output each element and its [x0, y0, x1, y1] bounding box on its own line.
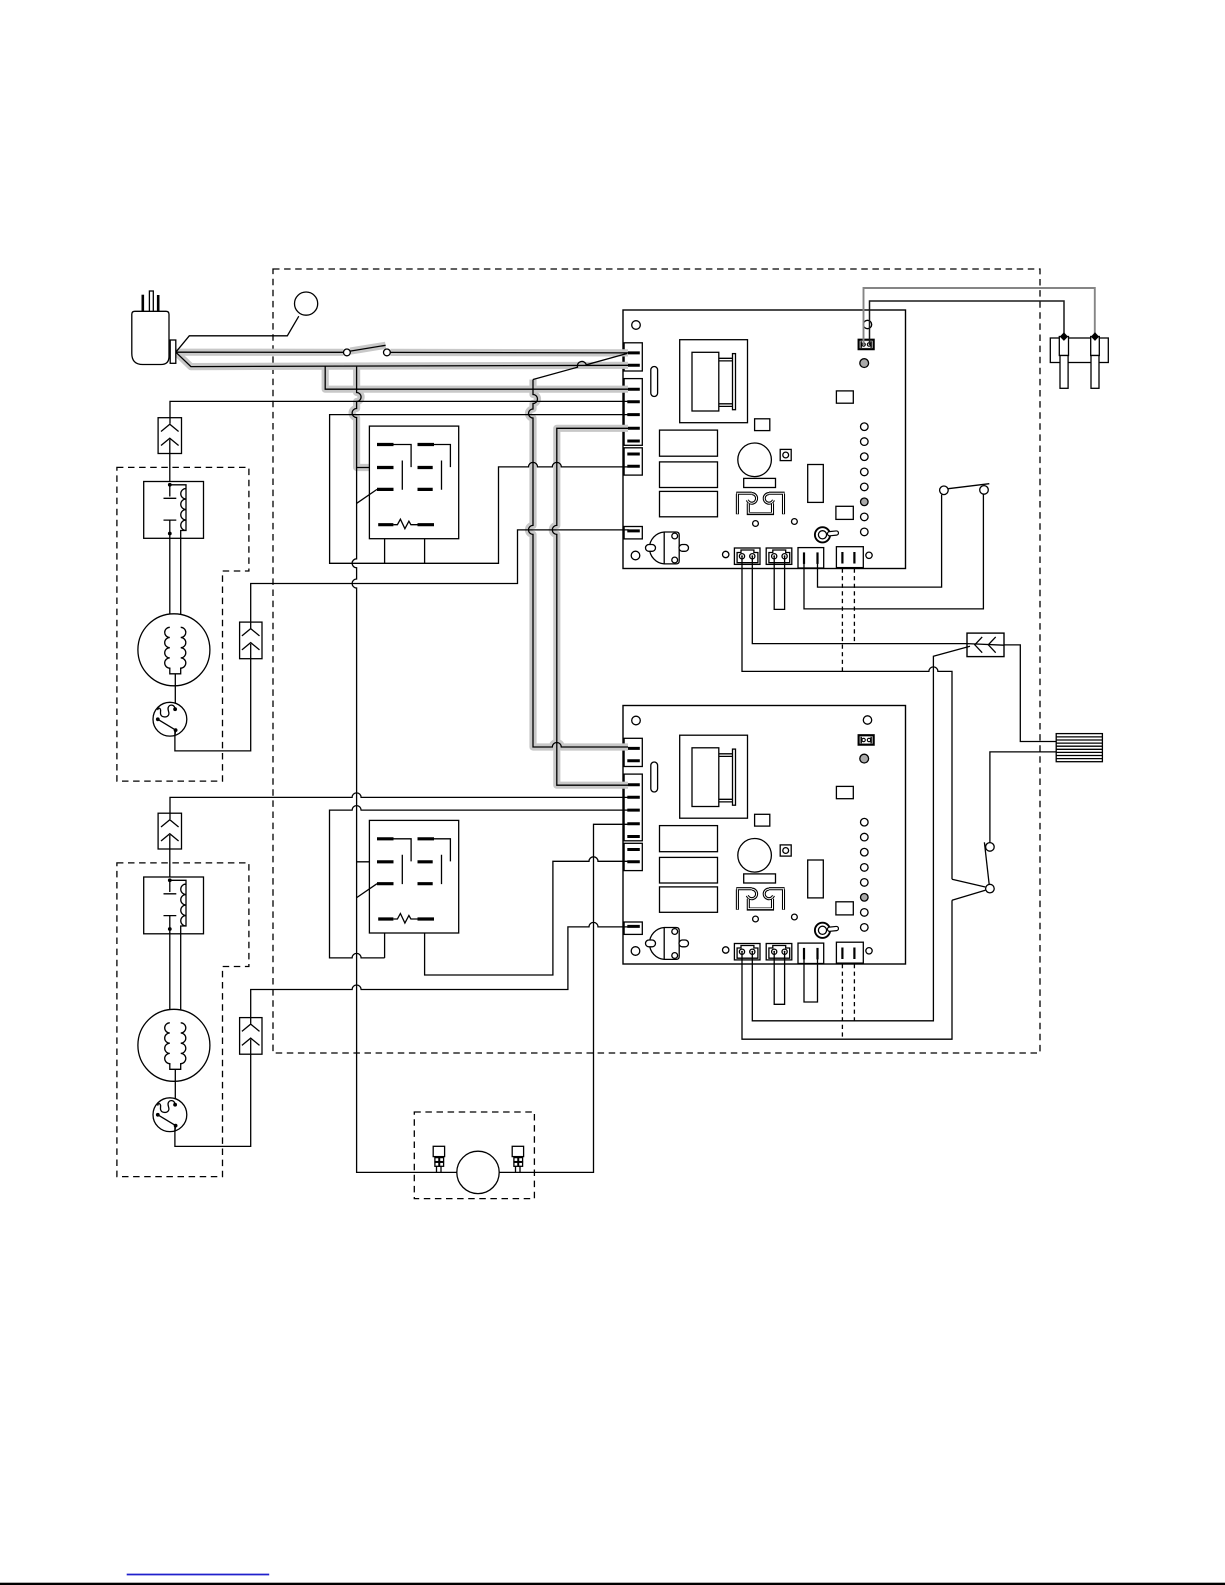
board1 conn1 left pin net: [742, 557, 952, 879]
arrow chevrons: [975, 637, 996, 653]
arrow box right to grille connector: [1004, 645, 1056, 742]
switch2 pole diagonals: [952, 879, 985, 900]
casing board link G4: [529, 380, 629, 748]
fuse2-1 to board pad: [251, 530, 628, 628]
fan right wire riser: [499, 824, 628, 1172]
control board U2: [623, 706, 906, 965]
fan motor circle: [457, 1151, 499, 1193]
fan terminal left: [433, 1146, 444, 1156]
control board U1: [623, 310, 906, 569]
fuse2-2 to board2 pad: [251, 922, 628, 1023]
footer link line: [127, 1574, 270, 1576]
cord casing wire A: [176, 349, 344, 356]
casing board link G5: [552, 428, 628, 785]
fan terminal right: [512, 1146, 523, 1156]
protector1 to fuse2-1: [175, 659, 251, 751]
board2 conn2 jumper: [774, 953, 784, 1005]
board1 conn1 right pin to arrow box: [752, 557, 1004, 645]
door switch S0 blade: [350, 345, 385, 351]
relay2 row2 feed: [357, 861, 378, 863]
relay2 lead left: [384, 920, 386, 958]
mains rail lower: [352, 468, 457, 1173]
switch S1 contacts: [940, 486, 949, 495]
arrow check valve box: [967, 633, 1004, 657]
heater terminal dot left: [1060, 332, 1068, 341]
heater cartridge right: [1091, 337, 1100, 356]
relay1 lead left: [384, 526, 386, 563]
switch S2 contacts: [986, 843, 995, 852]
heater body: [1050, 338, 1108, 363]
switch S2 blade: [984, 842, 989, 884]
wire D board to relay1 frame: [330, 415, 628, 564]
lamp wire: [176, 316, 299, 352]
plug cord grip: [170, 340, 176, 363]
switch2 pole to board2 conn1: [742, 900, 952, 1039]
casing mains rail upper: [352, 367, 377, 468]
link G4 core: [529, 380, 629, 748]
relay module 1: [357, 426, 459, 539]
heater wire 2: [870, 301, 1065, 345]
casing switch blade: [350, 345, 385, 351]
lamp bulb: [295, 292, 318, 315]
casing wire B branch: [325, 367, 628, 390]
compressor unit 2: [117, 813, 262, 1176]
heater terminal dot right: [1091, 332, 1099, 341]
power plug body: [132, 311, 169, 364]
switch S1 blade: [948, 484, 989, 489]
wire A core: [176, 351, 628, 354]
board1 conn2 jumper: [774, 557, 784, 609]
relay1 lead right: [424, 526, 426, 563]
big dashed enclosure: [273, 269, 1040, 1053]
protector2 to fuse2-2: [175, 1054, 251, 1146]
board1 conn3 right to switch1: [818, 495, 942, 587]
cord casing wire B: [176, 352, 628, 366]
link G4 diagonal: [533, 354, 627, 380]
wire D2 board2 to relay2 frame: [330, 806, 629, 958]
board1 conn4 dashed pins: [842, 569, 854, 672]
door switch S0 contacts: [344, 349, 351, 356]
mains rail core: [352, 367, 377, 468]
heater cartridge left: [1059, 337, 1068, 356]
heater wire 1: [864, 288, 1095, 345]
wire C2 fuse1-2 to board2: [170, 793, 628, 819]
wire C fuse1 to board: [170, 401, 628, 423]
grille connector to switch2 top: [990, 752, 1056, 843]
compressor unit 1: [117, 418, 262, 781]
fan dashed enclosure: [414, 1112, 534, 1199]
grille connector: [1056, 734, 1102, 762]
relay module 2: [357, 820, 459, 933]
footer bar: [0, 1583, 1225, 1585]
relay2 lead right: [425, 857, 628, 975]
plug prong middle: [149, 291, 153, 311]
wire B branch core: [325, 367, 628, 390]
board1 conn3 left to switch1: [804, 494, 983, 609]
board2 conn4 dashed pins: [842, 964, 854, 1039]
wire B core: [176, 352, 628, 366]
link G5 core: [552, 428, 628, 785]
board2 conn3 jumper: [804, 959, 818, 1003]
plug prong left: [142, 295, 145, 312]
plug prong right: [157, 295, 160, 311]
board2 conn1 right to arrow box: [752, 646, 970, 1021]
